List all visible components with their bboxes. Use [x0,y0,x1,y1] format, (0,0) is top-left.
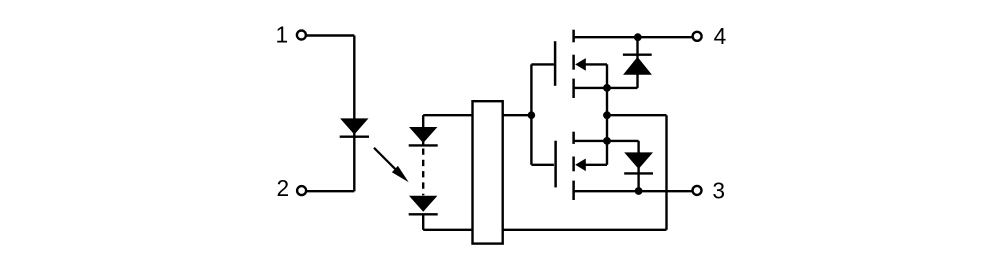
junction source to driver return [603,111,611,119]
wire to Q1 gate [531,63,554,65]
wire Q1 drain to pin4 [574,36,693,38]
photodiode D2 triangle [409,127,437,143]
svg-text:3: 3 [712,177,725,203]
diode D5 triangle [624,152,653,169]
junction Q1 source [603,84,611,92]
wire photodiode stack top [422,115,424,146]
transistor Q1 body arrow [575,58,586,71]
wire driver output to gates [503,114,532,116]
wire source node to right rail [607,114,667,116]
pin 3 terminal [693,186,702,195]
wire common source riser [606,64,608,164]
junction diode D4 cathode [634,33,642,41]
light emission arrow shaft [374,148,400,174]
diode D4 cathode bar [623,54,652,56]
wire Q1 source line [574,87,638,89]
svg-text:1: 1 [275,22,288,48]
transistor Q1 channel body segment [572,55,575,70]
junction diode D5 cathode [635,187,643,195]
junction gate feed node [528,111,536,119]
diode D5 vertical wire [637,141,639,191]
transistor Q2 channel source segment [572,132,575,144]
dashed wire between photodiodes [422,149,424,196]
wire right rail down [665,115,667,230]
wire photodiode stack bottom [422,215,424,230]
svg-text:2: 2 [276,175,289,201]
diode D4 vertical wire [636,37,638,88]
diode D5 cathode bar [624,172,653,174]
pin 2 terminal [297,186,306,195]
wire Q2 drain to pin3 [574,190,693,192]
pin 1 terminal [297,31,306,40]
light emission arrow head [392,166,409,182]
driver block U1 [473,101,503,243]
transistor Q2 channel body segment [572,157,575,172]
wire photodiode bottom to driver [423,229,473,231]
wire photodiode top to driver [423,114,473,116]
transistor Q1 channel drain segment [572,30,575,43]
wire LED vertical [353,36,355,192]
transistor Q2 channel drain segment [572,181,575,200]
photodiode D2 cathode bar [409,144,438,146]
transistor Q2 body arrow [575,159,586,172]
diode D4 triangle [623,57,652,75]
transistor Q1 channel source segment [572,79,575,98]
LED D1 triangle [340,118,368,134]
transistor Q1 gate bar [554,41,557,86]
svg-text:4: 4 [714,23,727,49]
transistor Q2 gate bar [554,141,557,188]
wire bottom return to driver [503,229,667,231]
photodiode D3 triangle [409,196,437,212]
LED D1 cathode bar [340,135,369,137]
wire to Q2 gate [531,164,554,166]
pin 4 terminal [693,32,702,41]
wire pin1 to LED anode [306,34,354,36]
wire LED cathode to pin2 [306,190,354,192]
wire Q1 body to source node [585,63,607,65]
junction Q2 source [603,137,611,145]
wire Q2 source line [574,140,639,142]
photodiode D3 cathode bar [409,213,438,215]
wire gate riser [530,64,532,164]
wire Q2 body to source node [585,164,607,166]
